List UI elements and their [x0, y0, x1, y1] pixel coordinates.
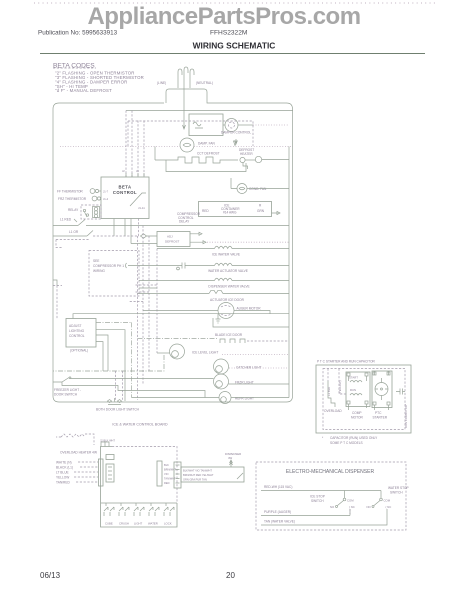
svg-text:RUN: RUN — [350, 388, 356, 392]
svg-text:J1-11: J1-11 — [138, 206, 145, 210]
svg-text:ICE & WATER CONTROL BOARD: ICE & WATER CONTROL BOARD — [112, 423, 168, 427]
cube switch S2 — [104, 507, 114, 516]
svg-text:ELECTRO-MECHANICAL DISPENSER: ELECTRO-MECHANICAL DISPENSER — [286, 469, 375, 475]
svg-text:GRN: GRN — [257, 209, 265, 213]
defrost limit — [245, 159, 255, 161]
board outline — [101, 447, 178, 528]
BETA CONTROL board box — [101, 177, 149, 219]
evap fan motor M2 — [180, 138, 194, 152]
L1 switch contact — [53, 219, 85, 226]
svg-text:J1-4: J1-4 — [103, 197, 109, 201]
row: ice water valve coil L1 — [157, 246, 289, 248]
svg-text:"d F" - MANUAL DEFROST: "d F" - MANUAL DEFROST — [55, 88, 112, 93]
water switch S5 — [149, 507, 159, 516]
svg-text:#14 AWG: #14 AWG — [223, 211, 237, 215]
ptc outer box — [316, 365, 411, 433]
svg-text:TAN (WATER VALVE): TAN (WATER VALVE) — [264, 520, 295, 524]
lock switch S6 — [164, 507, 174, 516]
svg-text:CCT DEFROST: CCT DEFROST — [197, 152, 220, 156]
tan wire — [261, 509, 387, 525]
svg-text:20: 20 — [226, 571, 235, 580]
svg-text:BOTH DOOR LIGHT SWITCH: BOTH DOOR LIGHT SWITCH — [96, 408, 140, 412]
catcher light DS2 — [214, 359, 229, 374]
svg-text:COMP: COMP — [352, 411, 362, 415]
compressor feed stubs — [139, 281, 157, 289]
ELECTRO-MECHANICAL DISPENSER — [256, 462, 409, 530]
inter-row dashes — [130, 285, 157, 302]
svg-text:J2 BLK WHT: J2 BLK WHT — [100, 439, 115, 443]
defrost heater element — [155, 157, 238, 163]
ice level light DS1 — [170, 344, 185, 359]
svg-text:WATER ACTUATOR VALVE: WATER ACTUATOR VALVE — [208, 269, 248, 273]
wire damper to bus — [223, 124, 225, 126]
row: dispenser water valve coil L3 — [149, 278, 289, 280]
adaptive defrost box — [157, 232, 190, 247]
svg-text:L1 RED: L1 RED — [60, 218, 72, 222]
ice level drop — [53, 355, 164, 371]
svg-text:WATER: WATER — [148, 522, 158, 526]
ICE AND WATER CONTROL BOARD — [56, 423, 244, 528]
damper dashed enclosure — [128, 121, 253, 146]
neutral bus line — [126, 110, 293, 112]
damper motor box — [189, 114, 223, 136]
svg-text:CONTROL: CONTROL — [69, 334, 85, 338]
dashed stub rows left — [56, 240, 90, 248]
svg-text:DISPENSER WATER VALVE: DISPENSER WATER VALVE — [208, 285, 249, 289]
refr light DS4 — [219, 392, 231, 404]
feed wires into unit — [328, 369, 346, 395]
defrost thermostat — [240, 157, 245, 162]
svg-text:AppliancePartsPros.com: AppliancePartsPros.com — [87, 3, 360, 30]
svg-text:FRZ THERMISTOR: FRZ THERMISTOR — [58, 197, 87, 201]
svg-text:VIO: VIO — [164, 472, 168, 476]
svg-text:START: START — [349, 376, 358, 380]
svg-text:MOTOR: MOTOR — [351, 416, 364, 420]
bottom rail connectors — [108, 400, 122, 403]
svg-text:*: * — [322, 436, 324, 440]
BETA codes legend — [53, 63, 144, 94]
wire gauge info box — [199, 202, 272, 217]
svg-text:COMPRESSOR PH 1: COMPRESSOR PH 1 — [93, 264, 124, 268]
svg-text:WHITE (N): WHITE (N) — [56, 461, 72, 465]
dispenser arrow — [230, 460, 233, 467]
light riser dashes — [116, 371, 123, 402]
damper ground arrow — [235, 139, 238, 144]
ice level light feed — [157, 352, 170, 354]
svg-text:L1 BLK: L1 BLK — [327, 387, 331, 396]
comp motor box — [346, 372, 370, 407]
svg-text:HEATER: HEATER — [240, 152, 253, 156]
svg-text:LIGHT: LIGHT — [134, 522, 143, 526]
left edge feeder dashes — [53, 286, 62, 320]
svg-text:BRN/WHT: BRN/WHT — [164, 468, 177, 472]
adjustable lighting control box — [66, 319, 96, 348]
svg-text:PTC: PTC — [375, 411, 382, 415]
svg-text:WATER STOP: WATER STOP — [388, 486, 409, 490]
power plug prongs — [178, 67, 194, 88]
svg-text:COM: COM — [384, 499, 391, 503]
ice stop switch S7 — [343, 498, 346, 501]
svg-text:FFHS2322M: FFHS2322M — [210, 30, 247, 37]
condenser fan motor — [237, 184, 247, 194]
board switch bus — [101, 502, 177, 504]
ptc starter box — [372, 371, 392, 408]
svg-text:ICE STOP: ICE STOP — [310, 495, 325, 499]
junction tick — [108, 398, 121, 405]
svg-text:SWITCH: SWITCH — [390, 491, 403, 495]
freezer door switch S1 — [53, 378, 69, 383]
svg-text:BLADE ICE DOOR: BLADE ICE DOOR — [215, 333, 243, 337]
svg-text:PURPLE (AUGER): PURPLE (AUGER) — [264, 510, 291, 514]
svg-text:DOOR SWITCH: DOOR SWITCH — [54, 393, 78, 397]
defrost switch contact — [53, 231, 93, 237]
svg-text:RELAY: RELAY — [68, 208, 79, 212]
damper control motor M1 — [225, 119, 238, 132]
svg-text:J3: J3 — [136, 169, 139, 173]
svg-text:ADJUST: ADJUST — [69, 324, 81, 328]
svg-text:COM: COM — [347, 499, 354, 503]
lower door wire — [62, 382, 205, 398]
svg-text:FF THERMISTOR: FF THERMISTOR — [57, 190, 83, 194]
feeder down arrow — [234, 141, 237, 146]
title rule — [40, 53, 425, 55]
svg-text:WIRING SCHEMATIC: WIRING SCHEMATIC — [193, 41, 276, 51]
svg-text:TAN/RED: TAN/RED — [56, 481, 70, 485]
svg-text:BLK: BLK — [164, 463, 169, 467]
purple wire — [261, 509, 350, 516]
svg-text:( NC: ( NC — [349, 505, 355, 509]
115vac bus — [261, 490, 381, 492]
svg-text:Publication No: 5995633913: Publication No: 5995633913 — [38, 30, 118, 37]
blade door terminals — [220, 339, 245, 343]
svg-text:BLK/WHT VIO TAN/WHT: BLK/WHT VIO TAN/WHT — [183, 469, 212, 473]
svg-text:(NEUTRAL): (NEUTRAL) — [196, 81, 213, 85]
svg-text:ICE LEVEL LIGHT: ICE LEVEL LIGHT — [192, 351, 218, 355]
svg-text:ORN GRA PUR TAN: ORN GRA PUR TAN — [183, 478, 207, 482]
run capacitor symbol — [396, 389, 405, 395]
svg-text:P T C STARTER AND RUN CAPACIT: P T C STARTER AND RUN CAPACITOR — [317, 360, 376, 364]
L1 bus row — [86, 225, 289, 227]
beta bottom pin drops — [114, 219, 157, 244]
svg-text:NO: NO — [330, 505, 335, 509]
mid vertical buses — [138, 226, 158, 401]
input wires — [74, 462, 98, 482]
svg-text:BETA: BETA — [118, 185, 131, 190]
svg-text:CUBE: CUBE — [105, 522, 113, 526]
svg-text:RUN CAPACITOR*: RUN CAPACITOR* — [404, 403, 408, 428]
right inner bus — [288, 147, 290, 398]
comp motor pins — [347, 373, 350, 376]
beta pin to defrost row — [138, 219, 140, 237]
svg-text:OVERLOAD HEATER 4W: OVERLOAD HEATER 4W — [60, 451, 97, 455]
svg-text:LT BLUE: LT BLUE — [56, 471, 69, 475]
freezer light bus — [71, 379, 290, 385]
auger ground — [216, 314, 221, 323]
svg-text:SEE: SEE — [93, 259, 99, 263]
svg-text:RED: RED — [164, 481, 170, 485]
svg-text:(LINE): (LINE) — [157, 81, 166, 85]
ptc disc — [375, 383, 388, 396]
freezer light DS3 — [214, 374, 229, 389]
info box arrow — [272, 212, 281, 215]
ptc pins — [373, 372, 376, 375]
svg-text:CATCHER LIGHT: CATCHER LIGHT — [236, 366, 261, 370]
step wire to lower rows — [213, 318, 289, 327]
beta top pin labels — [126, 173, 144, 177]
heater left riser — [154, 147, 156, 161]
svg-text:ADJ: ADJ — [167, 235, 173, 239]
water filter symbol — [174, 263, 194, 269]
long bus under compressor — [73, 314, 289, 319]
svg-text:COND. FAN: COND. FAN — [249, 187, 267, 191]
svg-text:4W: 4W — [228, 456, 233, 460]
pin header J3 — [106, 464, 114, 482]
svg-text:06/13: 06/13 — [40, 571, 61, 580]
svg-text:AUGER MOTOR: AUGER MOTOR — [237, 307, 262, 311]
svg-text:( NC: ( NC — [386, 505, 392, 509]
damper coil symbol — [193, 122, 203, 128]
dispenser dashed outline — [256, 462, 406, 530]
overload heater resistor — [56, 434, 94, 445]
svg-text:J1-7: J1-7 — [103, 190, 109, 194]
thermostat jog — [243, 163, 248, 170]
svg-text:FREEZER LIGHT -: FREEZER LIGHT - — [54, 388, 81, 392]
svg-text:(YELLOW): (YELLOW) — [338, 380, 342, 394]
output connector J4 — [157, 461, 162, 486]
svg-text:LIGHTING: LIGHTING — [69, 329, 85, 333]
svg-text:WIRING: WIRING — [93, 269, 105, 273]
svg-text:BLACK (L1): BLACK (L1) — [56, 466, 73, 470]
svg-text:REFR LIGHT: REFR LIGHT — [235, 397, 254, 401]
harness end switch — [237, 473, 243, 479]
relay contacts and coil — [81, 205, 101, 219]
main cabinet box outline with power entry bump — [53, 89, 293, 402]
row: water actuator valve coil L2 — [126, 263, 290, 268]
harness connector J5 — [174, 462, 181, 488]
aux header — [106, 455, 114, 460]
svg-text:YELLOW: YELLOW — [56, 476, 69, 480]
svg-text:ACTUATOR ICE DOOR: ACTUATOR ICE DOOR — [210, 298, 245, 302]
light switch S4 — [134, 507, 144, 516]
heater return loop — [166, 160, 246, 172]
svg-text:SWITCH: SWITCH — [311, 499, 324, 503]
compressor photo dashed box — [89, 251, 139, 297]
svg-text:DEFROST: DEFROST — [165, 240, 180, 244]
svg-text:CONTROL: CONTROL — [113, 190, 137, 195]
svg-text:LOCK: LOCK — [164, 522, 172, 526]
overload protector — [328, 381, 335, 407]
board top pins — [101, 442, 109, 447]
beta internal diagonal — [130, 193, 146, 206]
PTC STARTER AND RUN CAPACITOR UNIT — [316, 360, 411, 446]
connector diamond — [141, 234, 158, 238]
control verticals from neutral bus to beta control — [126, 111, 144, 178]
svg-text:CRUSH: CRUSH — [119, 522, 129, 526]
svg-text:NO: NO — [367, 505, 372, 509]
top perforation dotted line — [34, 2, 436, 4]
crush switch S3 — [119, 507, 129, 516]
svg-text:(OPTIONAL): (OPTIONAL) — [70, 349, 88, 353]
dispenser harness bundle — [181, 467, 244, 482]
refr light wire — [132, 397, 290, 399]
neutral dotted feeder to right bus — [60, 146, 180, 148]
water stop switch S8 — [380, 498, 383, 501]
defrost row with connector — [93, 235, 139, 237]
lighting control stubs — [96, 322, 132, 397]
neutral wire drop with arrow — [183, 88, 186, 129]
svg-text:RED: RED — [202, 209, 209, 213]
svg-text:CAPACITOR (RUN) USED ONLY: CAPACITOR (RUN) USED ONLY — [330, 436, 378, 440]
svg-text:SOME P T C MODELS: SOME P T C MODELS — [330, 441, 363, 445]
svg-text:RED-WH (115 VAC): RED-WH (115 VAC) — [264, 485, 292, 489]
row: actuator ice door coil L4 — [138, 290, 290, 293]
ptc inner dashed box — [323, 369, 405, 430]
svg-text:DAMPER CONTROL: DAMPER CONTROL — [221, 131, 251, 135]
svg-text:ICE WATER VALVE: ICE WATER VALVE — [212, 253, 240, 257]
svg-text:L1 OR: L1 OR — [69, 230, 79, 234]
svg-text:BETA CODES: BETA CODES — [53, 63, 95, 70]
switch drops — [106, 503, 166, 506]
svg-text:OVERLOAD: OVERLOAD — [324, 409, 342, 413]
svg-text:BRN/WHT RED YEL/WHT: BRN/WHT RED YEL/WHT — [183, 473, 214, 477]
input connector J2 — [99, 459, 104, 486]
blade door feed — [138, 338, 219, 340]
defrost box arrows — [190, 232, 202, 235]
svg-text:STARTER: STARTER — [373, 416, 388, 420]
svg-text:R: R — [259, 204, 262, 208]
svg-text:J2: J2 — [122, 169, 125, 173]
svg-text:DELAY: DELAY — [179, 220, 190, 224]
auger motor M3 — [143, 310, 218, 312]
svg-text:DAMP. FAN: DAMP. FAN — [198, 142, 215, 146]
